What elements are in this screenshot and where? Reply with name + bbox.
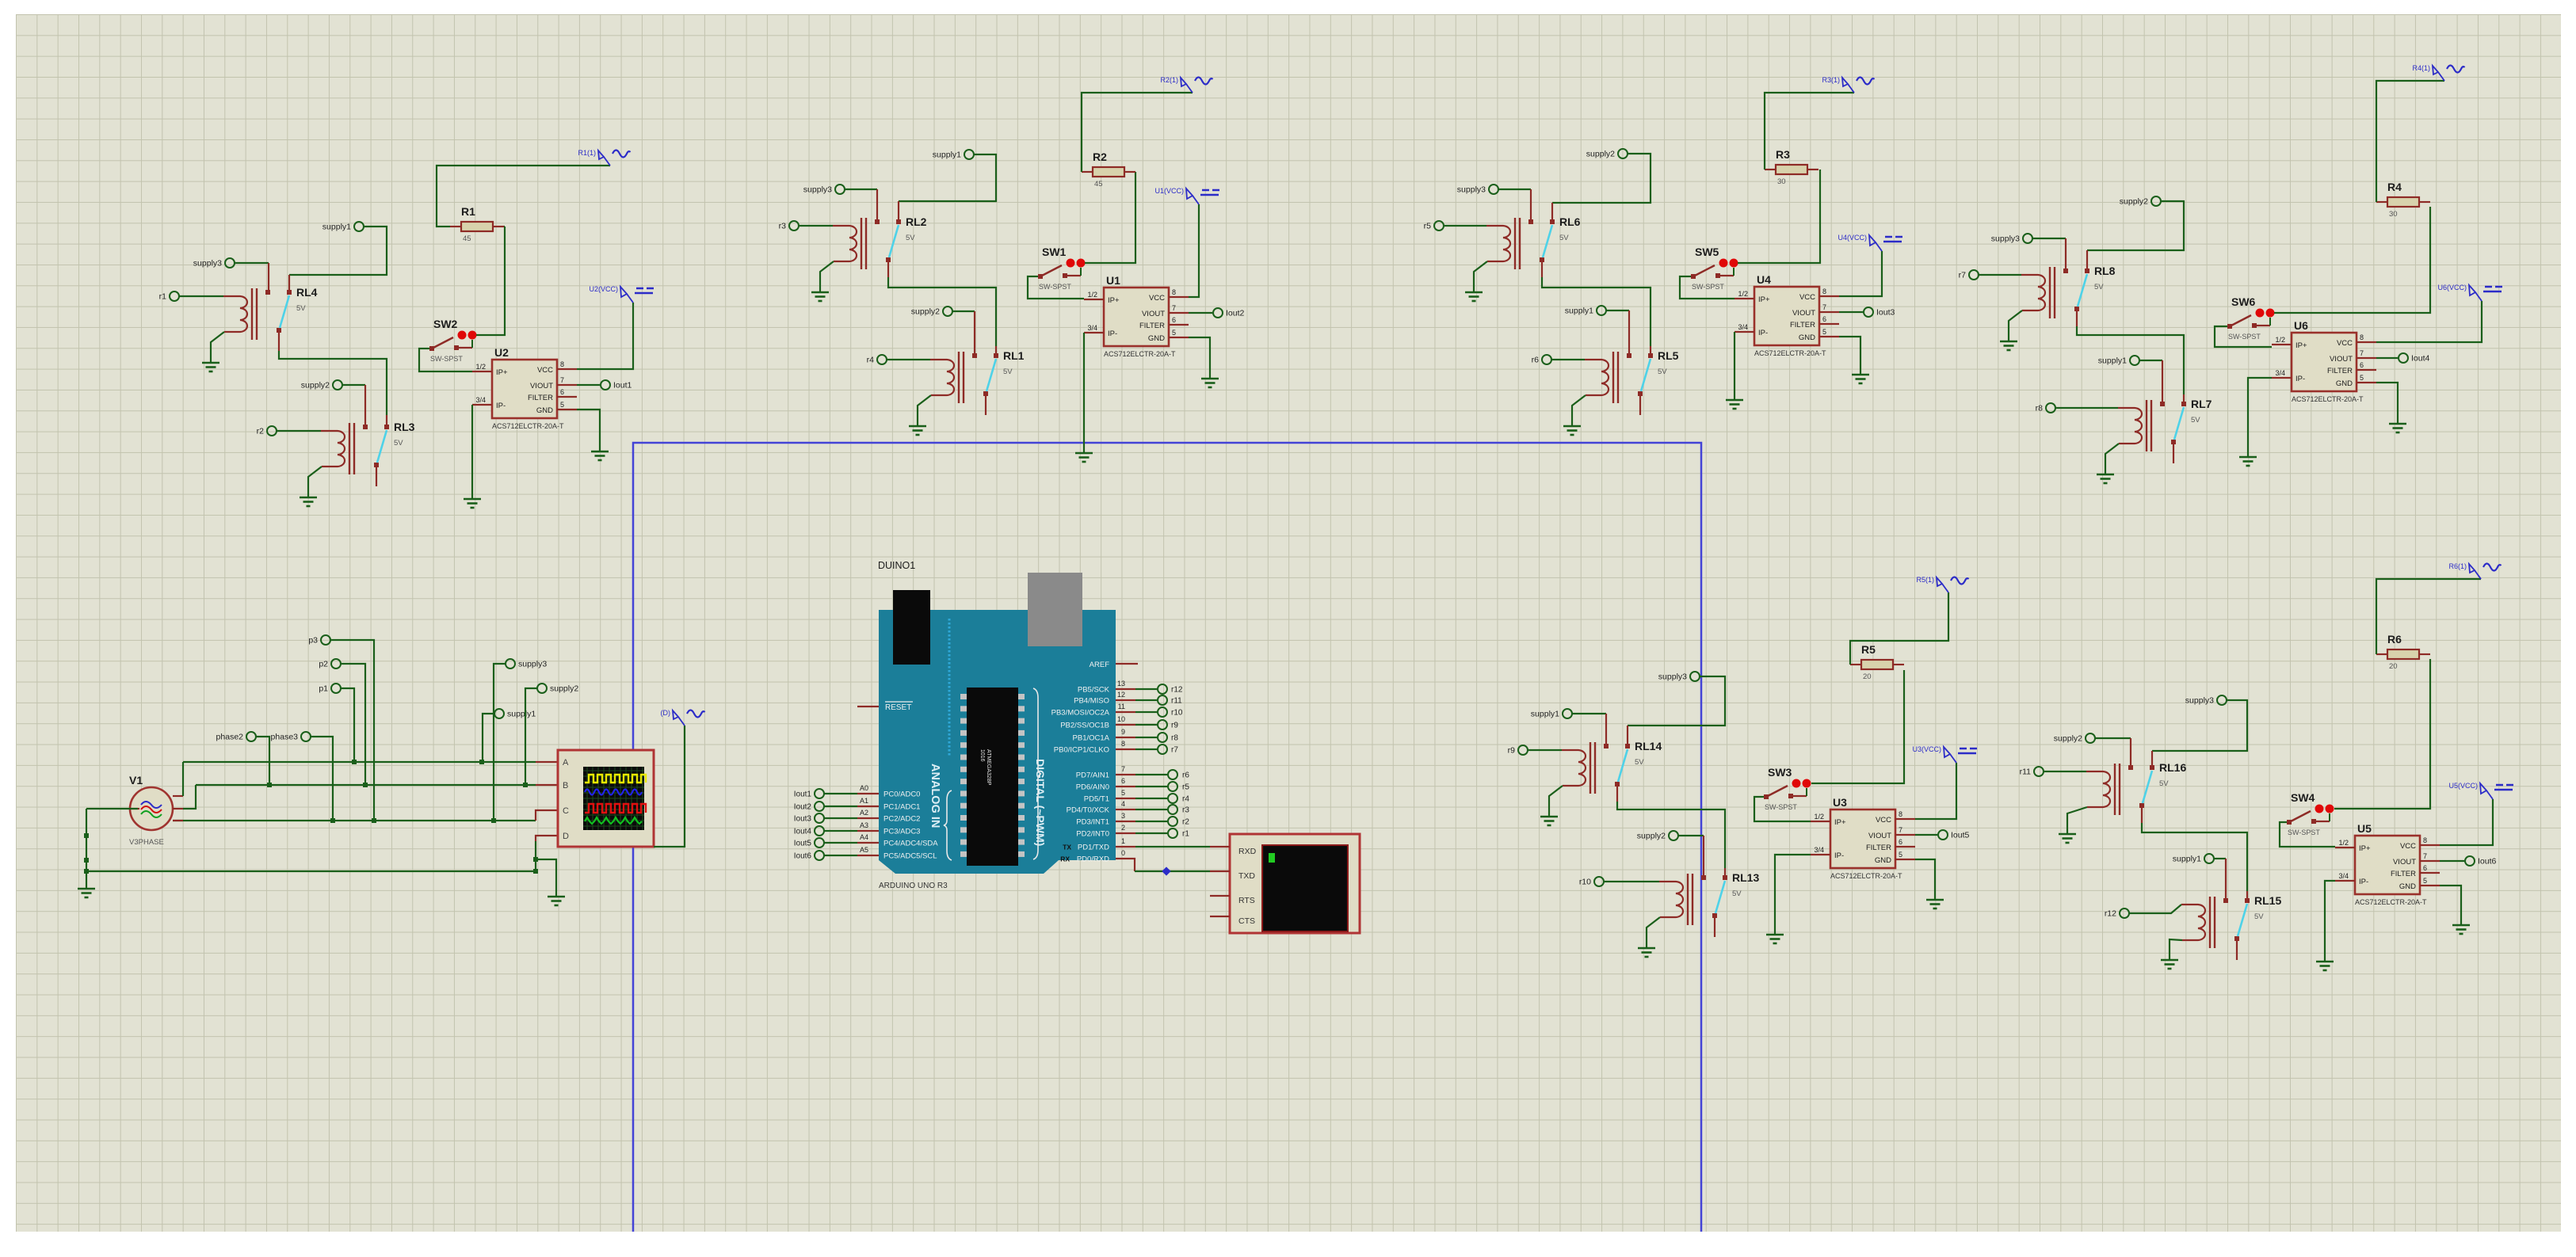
svg-text:SW6: SW6 xyxy=(2231,295,2256,308)
svg-text:RX: RX xyxy=(1060,855,1070,863)
svg-text:FILTER: FILTER xyxy=(2327,367,2353,375)
svg-text:IP-: IP- xyxy=(1834,851,1844,860)
svg-text:supply1: supply1 xyxy=(2098,356,2127,366)
svg-text:supply2: supply2 xyxy=(2054,734,2082,744)
svg-text:6: 6 xyxy=(2360,361,2364,369)
svg-text:PD0/RXD: PD0/RXD xyxy=(1077,855,1109,864)
svg-text:45: 45 xyxy=(1094,180,1103,189)
svg-text:SW4: SW4 xyxy=(2291,791,2315,804)
svg-text:Iout1: Iout1 xyxy=(613,381,632,390)
svg-text:U6: U6 xyxy=(2294,319,2308,332)
svg-text:r3: r3 xyxy=(779,222,786,231)
svg-text:5V: 5V xyxy=(1658,368,1667,376)
svg-text:Iout3: Iout3 xyxy=(794,815,812,824)
svg-text:TXD: TXD xyxy=(1238,871,1255,881)
svg-text:1: 1 xyxy=(1121,837,1125,845)
svg-text:supply1: supply1 xyxy=(1565,307,1593,316)
svg-text:IP-: IP- xyxy=(1758,329,1768,337)
svg-text:VCC: VCC xyxy=(2400,842,2416,851)
svg-text:R3(1): R3(1) xyxy=(1822,76,1840,84)
svg-text:A2: A2 xyxy=(860,809,868,817)
svg-text:6: 6 xyxy=(560,388,564,396)
svg-text:13: 13 xyxy=(1117,680,1125,688)
svg-text:p3: p3 xyxy=(308,636,318,646)
svg-text:Iout3: Iout3 xyxy=(1876,308,1895,318)
svg-text:IP+: IP+ xyxy=(1758,295,1770,304)
svg-text:supply1: supply1 xyxy=(507,710,536,719)
svg-text:Iout6: Iout6 xyxy=(2478,857,2497,867)
svg-text:IP-: IP- xyxy=(2296,375,2305,383)
svg-text:8: 8 xyxy=(560,360,564,368)
svg-text:r12: r12 xyxy=(1171,686,1183,695)
svg-text:r11: r11 xyxy=(1171,697,1182,706)
svg-text:r4: r4 xyxy=(1182,795,1189,804)
svg-text:IP+: IP+ xyxy=(2296,341,2307,350)
svg-text:RL3: RL3 xyxy=(394,421,415,433)
svg-text:6: 6 xyxy=(1899,838,1902,846)
svg-text:U1: U1 xyxy=(1106,274,1120,287)
svg-text:SW-SPST: SW-SPST xyxy=(2288,828,2320,836)
svg-text:supply2: supply2 xyxy=(1586,150,1615,159)
svg-text:1/2: 1/2 xyxy=(1087,291,1097,299)
svg-text:5V: 5V xyxy=(1003,368,1013,376)
svg-text:ACS712ELCTR-20A-T: ACS712ELCTR-20A-T xyxy=(1754,349,1826,357)
svg-text:RXD: RXD xyxy=(1238,847,1257,856)
svg-text:SW-SPST: SW-SPST xyxy=(1039,283,1071,291)
svg-text:A4: A4 xyxy=(860,833,868,841)
svg-text:VIOUT: VIOUT xyxy=(2393,858,2416,867)
svg-text:r2: r2 xyxy=(257,427,264,436)
svg-text:PC3/ADC3: PC3/ADC3 xyxy=(883,828,920,836)
svg-text:supply3: supply3 xyxy=(1658,672,1687,682)
svg-text:ACS712ELCTR-20A-T: ACS712ELCTR-20A-T xyxy=(2355,898,2427,906)
svg-text:9: 9 xyxy=(1121,728,1125,736)
svg-text:supply3: supply3 xyxy=(1991,234,2020,244)
svg-text:3/4: 3/4 xyxy=(2338,872,2349,880)
svg-text:IP-: IP- xyxy=(1108,329,1117,338)
svg-text:RL4: RL4 xyxy=(296,286,318,299)
svg-text:VCC: VCC xyxy=(537,366,553,375)
svg-text:1/2: 1/2 xyxy=(1738,290,1748,298)
svg-text:5V: 5V xyxy=(2191,416,2200,425)
svg-text:ACS712ELCTR-20A-T: ACS712ELCTR-20A-T xyxy=(492,422,564,430)
svg-text:R5: R5 xyxy=(1861,643,1876,656)
svg-text:r5: r5 xyxy=(1182,783,1189,792)
svg-text:0: 0 xyxy=(1121,849,1125,857)
svg-text:RL16: RL16 xyxy=(2159,761,2186,774)
svg-text:7: 7 xyxy=(1121,765,1125,773)
svg-text:supply2: supply2 xyxy=(2120,197,2148,207)
svg-text:(D): (D) xyxy=(661,709,671,717)
svg-text:Iout2: Iout2 xyxy=(1226,309,1245,318)
svg-text:U4: U4 xyxy=(1757,273,1771,286)
svg-text:5V: 5V xyxy=(2159,779,2169,788)
svg-text:SW-SPST: SW-SPST xyxy=(1692,283,1724,291)
svg-text:1/2: 1/2 xyxy=(475,363,486,371)
svg-text:3/4: 3/4 xyxy=(2275,369,2285,377)
svg-text:FILTER: FILTER xyxy=(1139,322,1165,330)
svg-text:5: 5 xyxy=(2423,877,2427,885)
svg-text:ACS712ELCTR-20A-T: ACS712ELCTR-20A-T xyxy=(2292,395,2364,403)
svg-text:R2(1): R2(1) xyxy=(1160,76,1178,84)
svg-text:SW1: SW1 xyxy=(1042,246,1067,258)
svg-text:PB1/OC1A: PB1/OC1A xyxy=(1073,734,1110,743)
svg-text:5: 5 xyxy=(1822,328,1826,336)
svg-text:U3(VCC): U3(VCC) xyxy=(1912,745,1941,753)
svg-text:5: 5 xyxy=(1172,329,1176,337)
svg-text:PC1/ADC1: PC1/ADC1 xyxy=(883,803,920,812)
svg-text:8: 8 xyxy=(2423,836,2427,844)
svg-text:30: 30 xyxy=(1777,177,1786,186)
svg-text:8: 8 xyxy=(1822,288,1826,295)
svg-text:p1: p1 xyxy=(319,684,328,694)
svg-text:supply3: supply3 xyxy=(518,660,547,669)
svg-text:IP+: IP+ xyxy=(2359,844,2371,853)
svg-text:FILTER: FILTER xyxy=(2391,870,2416,878)
svg-text:R5(1): R5(1) xyxy=(1916,576,1934,584)
svg-text:r9: r9 xyxy=(1171,722,1178,730)
svg-text:Iout6: Iout6 xyxy=(794,852,812,861)
svg-text:ACS712ELCTR-20A-T: ACS712ELCTR-20A-T xyxy=(1104,350,1176,358)
svg-text:PD2/INT0: PD2/INT0 xyxy=(1076,830,1109,839)
svg-text:GND: GND xyxy=(2336,379,2353,388)
svg-text:5V: 5V xyxy=(2094,283,2104,291)
svg-text:r9: r9 xyxy=(1508,746,1515,756)
svg-text:V1: V1 xyxy=(129,774,143,787)
svg-text:U1(VCC): U1(VCC) xyxy=(1154,187,1184,195)
svg-text:r1: r1 xyxy=(159,292,166,302)
svg-text:FILTER: FILTER xyxy=(528,394,553,402)
svg-text:U6(VCC): U6(VCC) xyxy=(2437,284,2467,291)
svg-text:U2: U2 xyxy=(494,346,509,359)
svg-text:U2(VCC): U2(VCC) xyxy=(589,285,618,293)
svg-text:PB5/SCK: PB5/SCK xyxy=(1078,686,1110,695)
svg-text:GND: GND xyxy=(1799,333,1815,342)
svg-text:GND: GND xyxy=(1148,334,1165,343)
svg-text:A5: A5 xyxy=(860,846,868,854)
svg-text:PD4/T0/XCK: PD4/T0/XCK xyxy=(1067,806,1110,815)
svg-text:RL5: RL5 xyxy=(1658,349,1679,362)
svg-text:r2: r2 xyxy=(1182,818,1189,827)
svg-text:supply2: supply2 xyxy=(1637,832,1666,841)
svg-text:3/4: 3/4 xyxy=(1814,846,1824,854)
svg-text:A: A xyxy=(563,758,569,768)
svg-text:R2: R2 xyxy=(1093,150,1107,163)
svg-text:Iout2: Iout2 xyxy=(794,803,812,812)
svg-text:2: 2 xyxy=(1121,824,1125,832)
svg-text:5V: 5V xyxy=(1635,758,1644,767)
svg-text:r10: r10 xyxy=(1171,709,1183,718)
svg-text:r6: r6 xyxy=(1532,356,1539,365)
svg-text:5: 5 xyxy=(1121,789,1125,797)
svg-text:Iout4: Iout4 xyxy=(2411,354,2430,364)
svg-text:5V: 5V xyxy=(1559,234,1569,242)
svg-text:3: 3 xyxy=(1121,812,1125,820)
svg-text:RL8: RL8 xyxy=(2094,265,2116,277)
svg-text:Iout4: Iout4 xyxy=(794,828,812,836)
svg-text:PD5/T1: PD5/T1 xyxy=(1084,795,1109,804)
svg-text:R1(1): R1(1) xyxy=(578,149,596,157)
svg-text:B: B xyxy=(563,781,568,790)
svg-text:R6: R6 xyxy=(2387,633,2402,646)
svg-text:3/4: 3/4 xyxy=(475,396,486,404)
svg-text:PD1/TXD: PD1/TXD xyxy=(1078,844,1109,852)
svg-text:supply3: supply3 xyxy=(803,185,832,195)
svg-text:5V: 5V xyxy=(296,304,306,313)
svg-text:supply1: supply1 xyxy=(933,150,961,160)
svg-text:IP+: IP+ xyxy=(1108,296,1120,305)
svg-text:GND: GND xyxy=(536,406,553,415)
svg-text:supply2: supply2 xyxy=(301,381,330,390)
svg-text:DIGITAL (~PWM): DIGITAL (~PWM) xyxy=(1034,759,1047,846)
svg-text:20: 20 xyxy=(1863,672,1872,681)
svg-text:r7: r7 xyxy=(1959,271,1966,280)
svg-text:7: 7 xyxy=(1822,303,1826,311)
svg-text:VCC: VCC xyxy=(2337,339,2353,348)
svg-text:R3: R3 xyxy=(1776,148,1790,161)
svg-text:GND: GND xyxy=(2399,882,2416,891)
svg-text:SW-SPST: SW-SPST xyxy=(2228,333,2261,341)
svg-text:PB4/MISO: PB4/MISO xyxy=(1074,697,1109,706)
svg-text:D: D xyxy=(563,832,569,841)
svg-text:p2: p2 xyxy=(319,660,328,669)
svg-text:3/4: 3/4 xyxy=(1738,323,1748,331)
svg-text:SW-SPST: SW-SPST xyxy=(430,355,463,363)
svg-text:ANALOG IN: ANALOG IN xyxy=(929,764,941,828)
svg-text:VCC: VCC xyxy=(1876,816,1891,825)
svg-text:supply1: supply1 xyxy=(2173,855,2201,864)
svg-text:r8: r8 xyxy=(1171,734,1178,743)
svg-text:VIOUT: VIOUT xyxy=(1792,309,1815,318)
svg-text:VIOUT: VIOUT xyxy=(530,382,553,390)
svg-text:SW3: SW3 xyxy=(1768,766,1792,779)
svg-text:U5: U5 xyxy=(2357,822,2372,835)
svg-text:r1: r1 xyxy=(1182,830,1189,839)
svg-text:CTS: CTS xyxy=(1238,916,1255,926)
svg-text:5: 5 xyxy=(2360,374,2364,382)
svg-text:7: 7 xyxy=(560,376,564,384)
svg-text:1/2: 1/2 xyxy=(2275,336,2285,344)
svg-text:12: 12 xyxy=(1117,691,1125,699)
svg-text:RL6: RL6 xyxy=(1559,215,1581,228)
svg-text:PC5/ADC5/SCL: PC5/ADC5/SCL xyxy=(883,852,937,861)
svg-text:IP+: IP+ xyxy=(1834,818,1846,827)
svg-text:IP-: IP- xyxy=(2359,878,2368,886)
svg-text:PB2/SS/OC1B: PB2/SS/OC1B xyxy=(1060,722,1109,730)
svg-text:6: 6 xyxy=(1172,316,1176,324)
svg-text:r3: r3 xyxy=(1182,806,1189,815)
svg-text:30: 30 xyxy=(2389,210,2398,219)
svg-text:supply3: supply3 xyxy=(1457,185,1486,195)
svg-text:R4(1): R4(1) xyxy=(2412,64,2430,72)
svg-text:PC0/ADC0: PC0/ADC0 xyxy=(883,790,920,799)
svg-text:ARDUINO UNO R3: ARDUINO UNO R3 xyxy=(879,882,948,890)
svg-text:VCC: VCC xyxy=(1799,293,1815,302)
svg-text:RESET: RESET xyxy=(885,703,911,712)
svg-text:20: 20 xyxy=(2389,662,2398,671)
svg-text:Iout1: Iout1 xyxy=(794,790,812,799)
svg-text:PB3/MOSI/OC2A: PB3/MOSI/OC2A xyxy=(1051,709,1110,718)
svg-text:PB0/ICP1/CLKO: PB0/ICP1/CLKO xyxy=(1054,746,1109,755)
svg-text:A1: A1 xyxy=(860,797,868,805)
svg-text:R1: R1 xyxy=(461,205,475,218)
svg-text:PD6/AIN0: PD6/AIN0 xyxy=(1076,783,1109,792)
svg-text:8: 8 xyxy=(1899,810,1902,818)
svg-text:TX: TX xyxy=(1063,844,1071,851)
svg-text:5V: 5V xyxy=(2254,912,2264,921)
svg-text:5: 5 xyxy=(1899,851,1902,859)
svg-text:7: 7 xyxy=(1899,826,1902,834)
svg-text:DUINO1: DUINO1 xyxy=(878,560,915,571)
svg-text:SW-SPST: SW-SPST xyxy=(1765,803,1797,811)
svg-text:GND: GND xyxy=(1875,856,1891,865)
svg-text:5V: 5V xyxy=(906,234,915,242)
svg-text:U5(VCC): U5(VCC) xyxy=(2448,782,2478,790)
svg-text:8: 8 xyxy=(1172,288,1176,296)
svg-text:VIOUT: VIOUT xyxy=(1868,832,1891,840)
svg-text:PC2/ADC2: PC2/ADC2 xyxy=(883,815,920,824)
svg-text:1/2: 1/2 xyxy=(2338,839,2349,847)
svg-text:RL13: RL13 xyxy=(1732,871,1759,884)
svg-text:FILTER: FILTER xyxy=(1790,321,1815,329)
svg-text:VIOUT: VIOUT xyxy=(1142,310,1165,318)
svg-text:5V: 5V xyxy=(1732,889,1742,898)
svg-text:AREF: AREF xyxy=(1090,661,1110,669)
svg-text:PC4/ADC4/SDA: PC4/ADC4/SDA xyxy=(883,840,938,848)
svg-text:VCC: VCC xyxy=(1149,294,1165,303)
svg-text:8: 8 xyxy=(2360,333,2364,341)
svg-text:supply1: supply1 xyxy=(322,223,351,232)
svg-text:VIOUT: VIOUT xyxy=(2330,355,2353,364)
svg-text:U4(VCC): U4(VCC) xyxy=(1838,234,1867,242)
svg-text:PD7/AIN1: PD7/AIN1 xyxy=(1076,771,1109,780)
svg-text:6: 6 xyxy=(1121,777,1125,785)
svg-text:RTS: RTS xyxy=(1238,896,1255,905)
svg-text:ACS712ELCTR-20A-T: ACS712ELCTR-20A-T xyxy=(1830,872,1902,880)
svg-text:4: 4 xyxy=(1121,800,1125,808)
svg-text:C: C xyxy=(563,806,569,816)
svg-text:FILTER: FILTER xyxy=(1866,844,1891,852)
svg-text:SW5: SW5 xyxy=(1695,246,1719,258)
svg-text:supply1: supply1 xyxy=(1531,710,1559,719)
svg-text:11: 11 xyxy=(1118,703,1125,710)
svg-text:RL14: RL14 xyxy=(1635,740,1662,752)
svg-text:r12: r12 xyxy=(2105,909,2116,919)
svg-text:supply2: supply2 xyxy=(911,307,940,317)
svg-text:RL15: RL15 xyxy=(2254,894,2281,907)
svg-text:r7: r7 xyxy=(1171,746,1178,755)
svg-text:r8: r8 xyxy=(2036,404,2043,413)
svg-text:PD3/INT1: PD3/INT1 xyxy=(1076,818,1109,827)
svg-text:r5: r5 xyxy=(1424,222,1431,231)
svg-text:U3: U3 xyxy=(1833,796,1847,809)
svg-text:1/2: 1/2 xyxy=(1814,813,1824,821)
svg-text:7: 7 xyxy=(2360,349,2364,357)
svg-text:5: 5 xyxy=(560,401,564,409)
svg-text:A0: A0 xyxy=(860,784,868,792)
svg-text:RL7: RL7 xyxy=(2191,398,2212,410)
svg-text:7: 7 xyxy=(1172,304,1176,312)
svg-text:10: 10 xyxy=(1117,715,1125,723)
svg-text:A3: A3 xyxy=(860,821,868,829)
svg-text:6: 6 xyxy=(1822,315,1826,323)
svg-text:7: 7 xyxy=(2423,852,2427,860)
svg-text:Iout5: Iout5 xyxy=(794,840,812,848)
svg-text:r11: r11 xyxy=(2020,768,2032,777)
svg-text:SW2: SW2 xyxy=(433,318,458,330)
svg-text:r6: r6 xyxy=(1182,771,1189,780)
svg-text:6: 6 xyxy=(2423,864,2427,872)
svg-text:RL2: RL2 xyxy=(906,215,927,228)
svg-text:supply3: supply3 xyxy=(2185,696,2214,706)
svg-text:R4: R4 xyxy=(2387,181,2402,193)
svg-text:IP+: IP+ xyxy=(496,368,508,377)
svg-text:3/4: 3/4 xyxy=(1087,324,1097,332)
svg-text:45: 45 xyxy=(463,234,471,243)
svg-text:supply3: supply3 xyxy=(193,259,222,269)
svg-text:phase3: phase3 xyxy=(271,733,299,742)
svg-text:IP-: IP- xyxy=(496,402,506,410)
svg-text:5V: 5V xyxy=(394,439,403,448)
svg-text:RL1: RL1 xyxy=(1003,349,1025,362)
svg-text:8: 8 xyxy=(1121,740,1125,748)
svg-text:r10: r10 xyxy=(1579,878,1591,887)
svg-text:Iout5: Iout5 xyxy=(1951,831,1970,840)
svg-text:phase2: phase2 xyxy=(216,733,244,742)
svg-text:V3PHASE: V3PHASE xyxy=(129,838,164,847)
svg-text:R6(1): R6(1) xyxy=(2448,562,2467,570)
svg-text:supply2: supply2 xyxy=(550,684,578,694)
svg-text:r4: r4 xyxy=(867,356,874,365)
